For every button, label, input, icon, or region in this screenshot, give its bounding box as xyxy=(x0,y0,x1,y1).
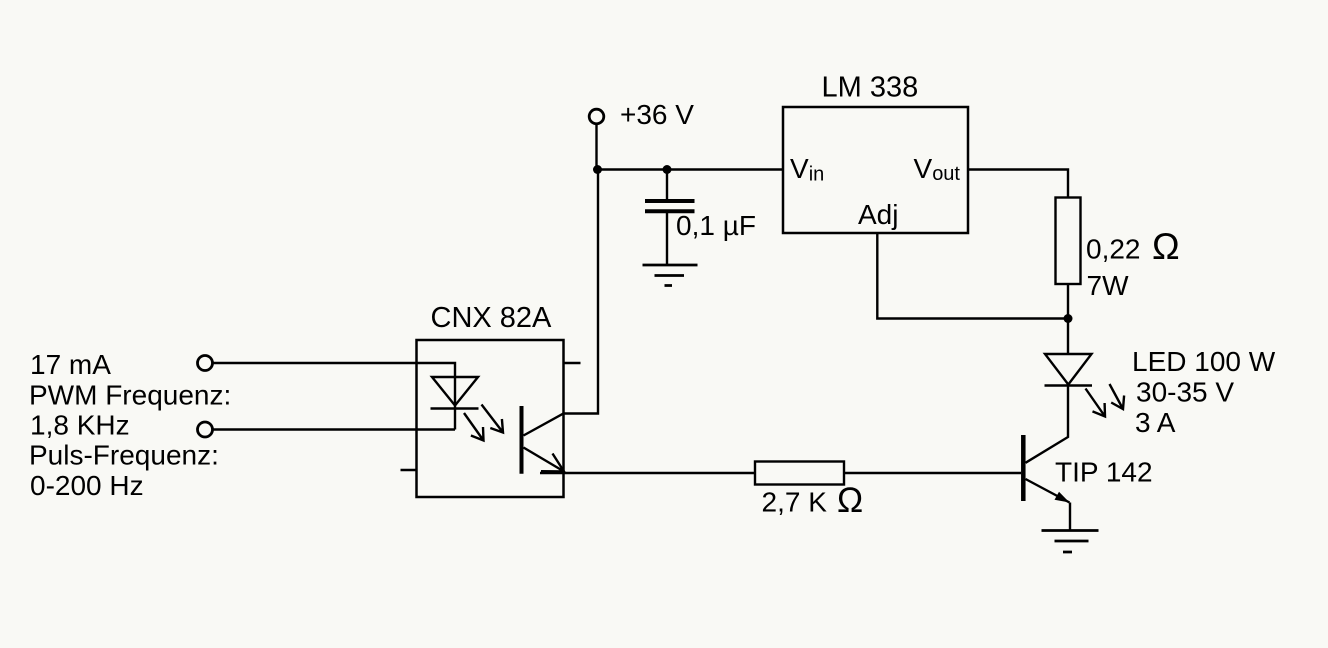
svg-text:Ω: Ω xyxy=(837,481,863,520)
svg-text:7W: 7W xyxy=(1087,270,1130,301)
svg-text:Ω: Ω xyxy=(1152,226,1180,267)
svg-text:LM 338: LM 338 xyxy=(822,72,919,104)
svg-text:2,7 K: 2,7 K xyxy=(762,486,828,517)
svg-text:17 mA: 17 mA xyxy=(30,349,111,380)
svg-text:0,1 µF: 0,1 µF xyxy=(676,210,756,241)
svg-text:Adj: Adj xyxy=(858,199,898,230)
svg-text:TIP 142: TIP 142 xyxy=(1055,456,1153,487)
svg-text:+36 V: +36 V xyxy=(620,99,694,130)
svg-text:PWM Frequenz:: PWM Frequenz: xyxy=(29,379,231,410)
svg-text:1,8 KHz: 1,8 KHz xyxy=(30,409,130,440)
svg-text:Puls-Frequenz:: Puls-Frequenz: xyxy=(29,440,219,471)
svg-text:30-35 V: 30-35 V xyxy=(1136,377,1234,408)
svg-text:0-200 Hz: 0-200 Hz xyxy=(30,470,144,501)
svg-text:0,22: 0,22 xyxy=(1086,234,1141,265)
svg-text:3 A: 3 A xyxy=(1135,407,1176,438)
svg-text:CNX 82A: CNX 82A xyxy=(431,302,553,334)
svg-text:LED 100 W: LED 100 W xyxy=(1132,346,1276,377)
